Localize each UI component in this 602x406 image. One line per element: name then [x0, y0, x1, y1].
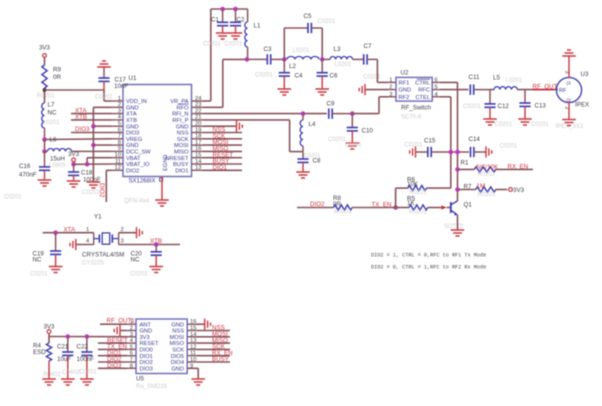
svg-text:C0201: C0201: [405, 142, 423, 148]
svg-text:R1: R1: [461, 159, 469, 166]
wire RFO riser: [222, 59, 224, 107]
svg-text:C7: C7: [364, 43, 372, 50]
svg-text:MISO: MISO: [169, 341, 184, 347]
inductor L4: [300, 114, 303, 152]
svg-text:R0201: R0201: [478, 172, 496, 178]
ground (sideways, crystal pin 2): [137, 227, 143, 238]
svg-text:NC: NC: [33, 257, 42, 264]
wire crystal pin 2: [119, 232, 137, 234]
svg-text:DIO3: DIO3: [140, 366, 153, 372]
svg-text:C14: C14: [469, 136, 481, 143]
svg-text:DIO5: DIO5: [171, 354, 184, 360]
svg-text:C0201: C0201: [82, 190, 100, 196]
wire C11 to L5: [490, 89, 494, 91]
junction C3/C4/C5/L2: [282, 57, 287, 62]
svg-text:RFI_N: RFI_N: [172, 112, 188, 118]
wire U1 pin 23 RFO: [203, 106, 223, 108]
svg-text:C0201: C0201: [203, 42, 221, 48]
wire XTA to U1 pin 3: [71, 113, 112, 115]
capacitor C18: [68, 164, 79, 181]
junction VBAT branch: [85, 162, 90, 167]
svg-text:16: 16: [190, 319, 196, 325]
wire R4 to ground: [48, 361, 50, 379]
wire C9 to riser: [352, 113, 379, 115]
svg-text:12: 12: [115, 165, 121, 171]
svg-text:2: 2: [118, 102, 121, 108]
svg-text:DIO3: DIO3: [126, 131, 139, 137]
inductor L7: [42, 103, 45, 140]
wire to R7: [458, 189, 476, 191]
svg-text:ESD: ESD: [33, 349, 46, 356]
flow arrow into Q1 base: [441, 206, 446, 210]
svg-text:L0201: L0201: [43, 120, 60, 126]
svg-text:C0201: C0201: [500, 143, 518, 149]
wire pin 9 down: [197, 368, 199, 379]
wire RX_EN stub: [196, 355, 230, 357]
svg-text:QFN-4x4: QFN-4x4: [124, 198, 150, 205]
inductor L5: [494, 87, 517, 90]
wire to R6: [396, 187, 408, 189]
svg-text:C6: C6: [330, 73, 338, 80]
svg-text:DIO4: DIO4: [171, 360, 184, 366]
ground (C21): [61, 379, 75, 385]
svg-text:C13: C13: [535, 102, 547, 109]
capacitor C16: [39, 151, 50, 180]
C16 labels: [19, 163, 37, 179]
U5 pin names: [140, 322, 185, 372]
svg-text:RF: RF: [559, 88, 567, 94]
C22 labels: [77, 343, 95, 362]
wire U1 pin 12 DIO2: [106, 169, 111, 171]
svg-text:3V3: 3V3: [140, 335, 150, 341]
svg-text:16: 16: [195, 146, 201, 152]
svg-text:R0201: R0201: [334, 209, 352, 215]
module U5 body: [136, 319, 187, 374]
svg-text:XTB: XTB: [150, 238, 162, 245]
ground (C18): [67, 181, 81, 187]
U1 right pin stubs 24-13: [192, 96, 204, 171]
wire Q1 emitter to ground: [457, 215, 459, 230]
wire R8 to TX_EN node: [352, 207, 396, 209]
wire U2 pin 5 RFC to C11: [440, 89, 469, 91]
svg-text:VBAT_IO: VBAT_IO: [126, 162, 150, 168]
ground (C8): [296, 172, 310, 178]
capacitor C1: [217, 9, 228, 33]
wire SCK stub: [203, 138, 242, 140]
svg-text:C0201: C0201: [531, 122, 549, 128]
wire to U2 RF2: [379, 96, 389, 98]
wire MOSI stub: [196, 336, 230, 338]
wire RFI_P to L4/C8: [290, 151, 303, 153]
junction C19: [53, 230, 58, 235]
ground (sideways, U2 pin 2): [359, 84, 365, 95]
svg-text:RFO: RFO: [176, 105, 189, 111]
svg-text:L0201: L0201: [293, 48, 310, 54]
svg-text:L0201: L0201: [335, 62, 352, 68]
capacitor C19: [50, 233, 61, 267]
wire C7 to U2 pin 1: [376, 59, 378, 82]
svg-text:GND: GND: [171, 322, 184, 328]
wire GND bus vertical: [92, 107, 94, 182]
svg-text:U1: U1: [129, 75, 137, 82]
junction bus/pin5: [91, 124, 96, 129]
ground (C22): [80, 379, 94, 385]
ground (C19): [49, 267, 63, 273]
svg-text:BUSY: BUSY: [173, 162, 189, 168]
svg-text:C0201: C0201: [30, 271, 48, 277]
resistor R9: [42, 65, 47, 88]
R4 refdes and value: [33, 342, 46, 356]
svg-text:L3: L3: [334, 46, 341, 53]
svg-text:RF_Switch: RF_Switch: [401, 104, 431, 111]
ground (C16): [38, 180, 52, 186]
ground (GND bus): [87, 182, 101, 188]
svg-text:5: 5: [118, 121, 121, 127]
ground (C1): [216, 33, 230, 39]
svg-text:C0201: C0201: [130, 271, 148, 277]
wire NSS stub: [196, 330, 230, 332]
svg-text:NC: NC: [131, 257, 140, 264]
U1 left pin names: [126, 99, 151, 174]
wire VR_PA riser: [210, 9, 212, 101]
net label RF_OUT: [533, 83, 558, 90]
svg-text:VBAT: VBAT: [126, 156, 141, 162]
junction L4: [301, 111, 306, 116]
svg-text:10nF: 10nF: [114, 83, 128, 90]
junction C2: [233, 7, 238, 12]
wire MOSI stub: [203, 144, 242, 146]
svg-text:7: 7: [118, 134, 121, 140]
svg-text:SCK: SCK: [177, 137, 189, 143]
svg-text:U5: U5: [136, 376, 144, 383]
svg-text:DIO1: DIO1: [175, 168, 188, 174]
svg-text:Y1: Y1: [94, 214, 102, 221]
svg-text:ANT: ANT: [140, 322, 152, 328]
wire R7 to 3V3: [496, 189, 508, 191]
svg-text:GND: GND: [126, 105, 139, 111]
ground (C13): [518, 119, 532, 125]
svg-text:10: 10: [190, 357, 196, 363]
wire RFO to node: [223, 58, 247, 60]
junction bus/pin8: [91, 143, 96, 148]
R9 labels: [53, 67, 61, 81]
wire bus to U1 pin 8 GND: [93, 144, 111, 146]
wire DIO2 to U5 pin 7: [98, 361, 127, 363]
wire SCK stub: [196, 348, 230, 350]
svg-text:CTRL: CTRL: [415, 81, 430, 87]
U2 pin names: [399, 79, 431, 101]
junction L1/C3: [245, 57, 250, 62]
inductor L1: [245, 9, 248, 59]
wire XTB to U1 pin 4: [71, 119, 112, 121]
svg-text:1K: 1K: [407, 200, 415, 207]
svg-text:C0201: C0201: [95, 95, 113, 101]
ground (U5 pin 9): [191, 379, 205, 385]
svg-text:11: 11: [190, 351, 196, 357]
svg-text:1: 1: [86, 227, 89, 233]
svg-text:6: 6: [435, 77, 438, 83]
svg-text:GND: GND: [176, 124, 189, 130]
svg-text:CY3225: CY3225: [82, 260, 104, 266]
R8 refdes and value: [333, 195, 341, 208]
resistor R6: [408, 186, 427, 191]
wire DIO2 down: [105, 170, 107, 202]
svg-text:L2: L2: [289, 63, 296, 70]
wire U1 pin 20 GND: [203, 125, 237, 127]
svg-text:22: 22: [195, 108, 201, 114]
svg-text:10: 10: [115, 153, 121, 159]
svg-text:3V3: 3V3: [68, 151, 80, 158]
ground (sideways, C15 left): [410, 146, 416, 157]
power port 3V3 (at R7): [509, 188, 513, 192]
U2 pin stubs: [389, 77, 440, 97]
wire riser to U2 pin 3: [378, 97, 380, 114]
svg-text:15uH: 15uH: [50, 155, 65, 162]
junction R1: [455, 167, 460, 172]
capacitor C10: [347, 114, 358, 143]
svg-text:3: 3: [118, 108, 121, 114]
junction C1: [220, 7, 225, 12]
svg-text:C12: C12: [498, 103, 510, 110]
wire to U2 RF1: [377, 81, 388, 83]
svg-text:NSS: NSS: [177, 131, 189, 137]
svg-text:SC70-6: SC70-6: [401, 115, 422, 121]
svg-text:10K: 10K: [407, 181, 419, 188]
svg-text:R0201: R0201: [409, 209, 427, 215]
junction C21: [66, 334, 71, 339]
wire 3V3 rail to U5 pin 3: [49, 336, 127, 338]
wire crystal pin 4: [76, 244, 94, 246]
svg-text:R7: R7: [464, 183, 472, 190]
wire R6 to CTEL vertical: [427, 187, 451, 189]
wire U1 pin 2 GND to bus: [93, 106, 111, 108]
svg-text:C0201: C0201: [4, 195, 22, 201]
wire DIO2 to R8: [297, 207, 334, 209]
wire to U1 pin 11 VBAT_IO: [74, 163, 112, 165]
ground (sideways, crystal pin 4): [70, 239, 76, 250]
wire DIO1 stub: [203, 169, 242, 171]
wire down to pin 1: [103, 90, 105, 101]
svg-text:L0805: L0805: [49, 163, 66, 169]
wire TX_EN riser to R6: [395, 188, 397, 207]
transistor Q1 (NPN): [451, 201, 458, 216]
svg-text:17: 17: [195, 140, 201, 146]
svg-text:L1: L1: [254, 23, 261, 30]
svg-text:0R: 0R: [53, 74, 61, 81]
inductor L2: [287, 57, 319, 60]
svg-text:C9: C9: [327, 100, 335, 107]
svg-text:EGND: EGND: [163, 155, 169, 171]
svg-text:3V3: 3V3: [43, 323, 55, 330]
ground (sideways, U5 pin 16): [205, 319, 211, 330]
L7 labels: [48, 102, 57, 117]
power port 3V3 (mid): [72, 158, 76, 162]
wire R5 to arrow: [428, 207, 442, 209]
wire RF_OUT1 to U5 pin 1: [100, 323, 127, 325]
junction C22: [85, 334, 90, 339]
C17 labels: [114, 77, 128, 91]
svg-text:Q1: Q1: [464, 201, 473, 208]
svg-text:IPEX: IPEX: [575, 102, 589, 109]
junction L6/C16: [42, 149, 47, 154]
svg-text:R0402: R0402: [43, 372, 61, 378]
junction C20: [154, 242, 159, 247]
wire U5 pin 2 GND: [120, 330, 127, 332]
svg-text:R0201: R0201: [409, 190, 427, 196]
svg-text:23: 23: [195, 102, 201, 108]
svg-text:RESET: RESET: [140, 341, 159, 347]
junction L2/L3/C6: [320, 57, 325, 62]
svg-text:U2: U2: [401, 69, 409, 76]
svg-text:12: 12: [190, 344, 196, 350]
svg-text:3: 3: [130, 332, 133, 338]
svg-text:MISO: MISO: [174, 150, 189, 156]
junction L7/L6: [42, 137, 47, 142]
svg-text:DIO1: DIO1: [140, 354, 153, 360]
ground (C4): [278, 89, 292, 95]
svg-text:DIO2: DIO2: [98, 183, 105, 198]
junction CTRL/C15-C14: [455, 150, 460, 155]
capacitor C13: [519, 90, 530, 119]
svg-text:1: 1: [389, 77, 392, 83]
wire U2 pin 2 GND: [365, 89, 389, 91]
U5 pin stubs and numbers: [127, 319, 197, 369]
svg-text:15: 15: [195, 153, 201, 159]
ground (C20): [149, 267, 163, 273]
svg-text:C21: C21: [57, 343, 69, 350]
svg-text:6: 6: [130, 351, 133, 357]
wire DIO1 to U5 pin 6: [98, 355, 127, 357]
svg-text:21: 21: [195, 115, 201, 121]
capacitor C15: [416, 147, 470, 157]
wire to U1 pin 7 VREG: [45, 138, 112, 141]
wire RESET stub: [203, 157, 242, 159]
svg-text:1: 1: [118, 96, 121, 102]
capacitor C7: [364, 54, 378, 64]
C21 labels: [57, 343, 71, 362]
wire DIO3 to U1 pin 6: [71, 132, 112, 134]
svg-text:RFI_P: RFI_P: [172, 118, 188, 124]
svg-text:20: 20: [195, 121, 201, 127]
ground (C10): [346, 143, 360, 149]
svg-text:5: 5: [435, 85, 438, 91]
svg-text:DIO2: DIO2: [310, 201, 325, 208]
svg-text:XTB: XTB: [126, 118, 137, 124]
wire down to L6: [44, 140, 46, 152]
svg-text:24: 24: [195, 96, 202, 102]
junction C10: [350, 111, 355, 116]
svg-text:NC/10K: NC/10K: [477, 164, 500, 171]
svg-text:GND: GND: [126, 124, 139, 130]
svg-text:10uF: 10uF: [57, 356, 71, 363]
wire to U1 pin 10 VBAT: [87, 157, 111, 159]
svg-text:VREG: VREG: [126, 137, 142, 143]
R5 refdes and value: [407, 195, 415, 207]
svg-text:DIO2: DIO2: [140, 360, 153, 366]
svg-text:C0201: C0201: [463, 104, 481, 110]
power port 3V3 (bottom): [47, 330, 51, 334]
svg-text:5: 5: [130, 344, 133, 350]
inductor L3: [322, 57, 364, 60]
wire to C5: [284, 27, 308, 29]
svg-text:NSS: NSS: [172, 329, 184, 335]
wire EGND to ground: [161, 177, 163, 201]
wire U3 top pin to ground: [568, 56, 570, 78]
wire TX_EN to U5 pin 5: [98, 348, 127, 350]
C18 labels: [81, 169, 101, 183]
junction CTEL/C15-C14: [449, 150, 454, 155]
svg-text:100nF: 100nF: [77, 356, 95, 363]
capacitor C9: [329, 108, 353, 118]
junction node VDD: [43, 88, 46, 91]
svg-text:C0201: C0201: [255, 73, 273, 79]
svg-text:C0201: C0201: [495, 122, 513, 128]
svg-text:GND: GND: [399, 88, 412, 94]
ground (inverted, U3 top): [562, 50, 576, 56]
wire 3V3 to rail: [48, 333, 50, 336]
wire MISO stub: [203, 150, 242, 152]
wire C5 left riser: [283, 28, 285, 59]
svg-text:C0201: C0201: [79, 370, 97, 376]
op-amp U2 RF_Switch body: [396, 77, 432, 101]
wire CTRL vertical: [457, 82, 459, 200]
svg-text:C0201: C0201: [345, 143, 361, 149]
svg-text:R0201: R0201: [37, 94, 55, 100]
svg-text:CTEL: CTEL: [415, 95, 430, 101]
capacitor C21: [62, 337, 73, 380]
wire bus to U1 pin 5 GND: [93, 125, 111, 127]
wire U2 pin 4 CTEL: [440, 96, 451, 98]
wire RESET to U5 pin 4: [98, 342, 127, 344]
svg-text:3V3: 3V3: [39, 45, 51, 52]
svg-text:DCC_SW: DCC_SW: [126, 150, 151, 156]
capacitor C2: [230, 9, 241, 33]
op-amp U1 SX1268 IC body: [123, 85, 192, 177]
svg-text:9: 9: [118, 146, 121, 152]
capacitor C6: [317, 59, 328, 89]
R6 refdes and value: [407, 177, 419, 188]
wire U1 pin 22 RFI_N: [203, 113, 327, 115]
wire L5 to U3: [517, 89, 558, 91]
svg-text:C0201: C0201: [225, 42, 243, 48]
junction TX_EN: [393, 205, 398, 210]
wire crystal pin 3 to XTB: [119, 244, 180, 246]
ground (U3 bottom): [562, 120, 576, 126]
svg-text:C0201: C0201: [328, 137, 346, 143]
wire to R1: [458, 168, 475, 170]
resistor R5: [409, 205, 428, 210]
ground (inverted, above C17): [97, 61, 111, 67]
wire U5 pin 16 GND: [196, 323, 204, 325]
svg-text:C0201: C0201: [304, 153, 320, 159]
svg-text:470nF: 470nF: [19, 172, 37, 179]
svg-text:RFC: RFC: [418, 88, 430, 94]
C19 labels: [33, 250, 45, 263]
svg-text:19: 19: [195, 127, 201, 133]
svg-text:11: 11: [115, 159, 121, 165]
ground (C2): [229, 33, 243, 39]
svg-text:SOT23: SOT23: [444, 224, 464, 230]
U1 part name SX1268IX: [129, 178, 163, 185]
svg-text:14: 14: [190, 332, 197, 338]
svg-text:L0201: L0201: [506, 78, 523, 84]
svg-text:C4: C4: [295, 73, 303, 80]
wire NSS stub: [203, 132, 242, 134]
svg-text:XTA: XTA: [64, 226, 76, 233]
capacitor C14: [471, 147, 487, 157]
capacitor C12: [484, 90, 495, 119]
ground (Q1): [451, 230, 465, 236]
